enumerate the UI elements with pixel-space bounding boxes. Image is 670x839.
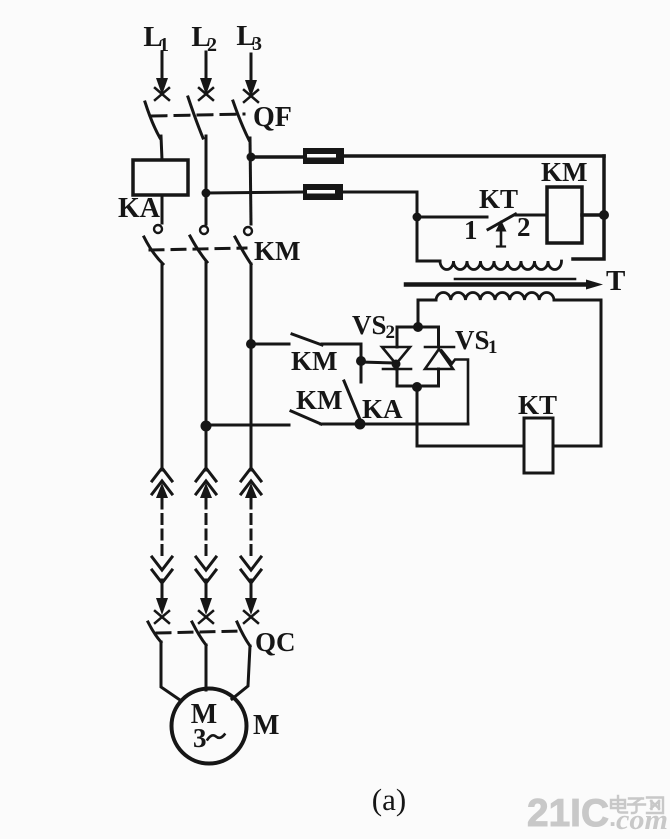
wire secondary left lead down to triac top node <box>418 300 436 327</box>
wire triac bottom to KT coil <box>417 387 524 446</box>
svg-text:(a): (a) <box>372 782 406 817</box>
contact KT delay arrow symbol <box>496 220 507 247</box>
breaker QF pole 2 blade <box>188 97 203 138</box>
svg-text:KA: KA <box>118 193 161 224</box>
wire phase C down <box>250 264 253 470</box>
breaker QF linkage dashed line <box>152 114 244 116</box>
transformer T core upper line <box>455 278 575 281</box>
wire QC pole2 to motor <box>205 645 208 690</box>
svg-text:VS: VS <box>455 325 490 355</box>
wire KT coil to right rail <box>553 445 601 448</box>
contactor KM linkage dashed line <box>150 248 246 250</box>
node junction dot KA stub <box>356 356 366 366</box>
arrow chevrons up phase B <box>196 468 216 498</box>
wire L1 incoming feed with arrowhead <box>156 52 168 95</box>
wire triac right branch upper <box>437 327 440 347</box>
node L1 label <box>143 21 169 56</box>
thyristor VS1 (points up) <box>425 347 454 369</box>
fuse FU2 <box>303 184 343 200</box>
contactor KM main blade 1 <box>144 237 163 264</box>
wire lower KM contact to gate loop <box>321 423 468 426</box>
contact KA fixed stub <box>360 361 363 382</box>
node junction dot on L2 (lower KM tap) <box>201 421 212 432</box>
fuse FU1 <box>303 148 344 164</box>
switch QC pole 3 blade <box>237 622 250 646</box>
wire L3 from QF down <box>250 138 251 224</box>
svg-text:1: 1 <box>488 337 498 358</box>
switch QC linkage dashed line <box>157 631 243 633</box>
node L2 label <box>191 21 217 56</box>
wire KM aux contact left <box>251 343 289 346</box>
node junction dot on L3 (KM aux tap) <box>246 339 256 349</box>
svg-text:2: 2 <box>386 322 396 343</box>
wire QC pole1 to motor <box>161 642 180 700</box>
relay coil KA <box>133 160 188 195</box>
node L3 label <box>236 20 262 55</box>
contactor coil KM <box>547 187 582 243</box>
wire L3 incoming feed with arrowhead <box>245 54 257 97</box>
svg-text:KT: KT <box>479 184 518 214</box>
wire KT contact to KM coil <box>516 214 547 217</box>
svg-text:M: M <box>253 710 279 741</box>
wire secondary right lead down right rail <box>554 300 601 446</box>
wire L1 from QF to KA coil <box>161 136 162 160</box>
wire QC pole3 to motor <box>232 646 250 699</box>
contact KM lower blade <box>291 411 321 424</box>
wire junction to VS2 gate <box>361 362 394 363</box>
contactor KM main contact circles <box>154 225 252 235</box>
switch QC pole 2 blade <box>192 622 206 645</box>
contactor KM main blade 3 <box>235 237 251 264</box>
wire triac left branch upper <box>396 327 399 347</box>
timer coil KT <box>524 418 553 473</box>
wire phase B lower solid with arrowhead <box>200 580 212 615</box>
watermark 21IC <box>527 792 668 836</box>
svg-text:3: 3 <box>193 723 207 753</box>
svg-text:KM: KM <box>296 385 343 415</box>
switch QC pole 2 terminal cross <box>199 611 213 623</box>
arrow chevrons down phase C <box>241 557 261 583</box>
wire phase A dashed section <box>161 499 164 555</box>
thyristor VS2 label <box>352 310 395 343</box>
wire triac left branch lower <box>397 369 417 386</box>
transformer T primary winding <box>440 261 562 270</box>
contact KT (timed) fixed wire <box>417 216 487 219</box>
wire fuse1 to top-right rail <box>344 154 604 158</box>
contact KT blade <box>488 214 516 230</box>
svg-text:KM: KM <box>291 346 338 376</box>
wire fuse2 to control node <box>343 192 417 217</box>
svg-text:21IC: 21IC <box>527 792 609 835</box>
wire right rail down to transformer primary <box>573 215 604 259</box>
arrow chevrons down phase A <box>152 557 172 583</box>
wire triac top bar <box>397 326 439 329</box>
wire control bus down to transformer primary left <box>417 217 440 261</box>
node junction dot right rail <box>599 210 609 220</box>
breaker QF pole 3 blade <box>233 101 249 140</box>
watermark chinese characters 电子网 <box>611 796 663 813</box>
svg-text:QF: QF <box>253 102 292 133</box>
switch QC pole 1 blade <box>148 622 161 642</box>
wire L2 from QF down <box>205 136 208 224</box>
contact KM aux blade <box>292 334 322 345</box>
wire KM coil to right rail <box>582 213 604 217</box>
wire L2 incoming feed with arrowhead <box>200 52 212 95</box>
svg-text:3: 3 <box>252 33 262 55</box>
node junction dot on L2 (fuse2 tap) <box>202 189 211 198</box>
node triac bottom junction dot <box>412 382 422 392</box>
wire phase C lower solid with arrowhead <box>245 580 257 615</box>
svg-text:KM: KM <box>254 236 301 266</box>
contactor KM main blade 2 <box>190 236 207 262</box>
breaker QF pole 2 terminal cross <box>199 88 213 100</box>
wire fuse1 feed <box>251 155 303 159</box>
svg-text:KM: KM <box>541 157 588 187</box>
transformer T core lower line with pointed end <box>406 280 603 290</box>
contact KA blade <box>344 381 361 422</box>
svg-text:KA: KA <box>362 394 403 424</box>
wire right rail down to KM coil node <box>602 156 606 215</box>
node junction dot control bus <box>413 213 422 222</box>
svg-text:2: 2 <box>207 34 217 56</box>
node VS2 gate junction dot <box>392 360 401 369</box>
wire L1 from KA coil to KM contact <box>161 195 164 223</box>
node junction dot on L3 (fuse1 tap) <box>247 153 256 162</box>
breaker QF pole 3 terminal cross <box>244 90 258 102</box>
breaker QF pole 1 terminal cross <box>155 88 169 100</box>
wire phase B down <box>205 262 208 470</box>
svg-text:T: T <box>606 265 625 297</box>
transformer T secondary winding <box>436 292 554 300</box>
wire KM aux contact right to corner <box>322 344 361 361</box>
wire VS1 gate to loop <box>442 351 469 425</box>
motor M circle <box>172 689 247 764</box>
wire phase C dashed section <box>250 499 253 555</box>
wire triac right branch lower <box>417 369 439 386</box>
arrow chevrons up phase C <box>241 468 261 498</box>
svg-text:QC: QC <box>255 627 296 657</box>
node triac top junction dot <box>413 322 423 332</box>
breaker QF pole 1 blade <box>145 102 160 138</box>
wire fuse2 feed <box>206 192 303 193</box>
wire phase A down <box>161 264 164 470</box>
thyristor VS2 (points down) <box>382 347 411 369</box>
arrow chevrons up phase A <box>152 468 172 498</box>
thyristor VS1 label <box>455 325 498 358</box>
wire lower KM contact left <box>206 424 289 427</box>
svg-text:KT: KT <box>518 390 557 420</box>
svg-text:VS: VS <box>352 310 387 340</box>
switch QC pole 3 terminal cross <box>244 611 258 623</box>
switch QC pole 1 terminal cross <box>155 611 169 623</box>
wire phase B dashed section <box>205 499 208 555</box>
arrow chevrons down phase B <box>196 557 216 583</box>
wire phase A lower solid with arrowhead <box>156 580 168 615</box>
svg-text:1: 1 <box>464 215 478 245</box>
node junction dot KA blade landing <box>355 419 366 430</box>
